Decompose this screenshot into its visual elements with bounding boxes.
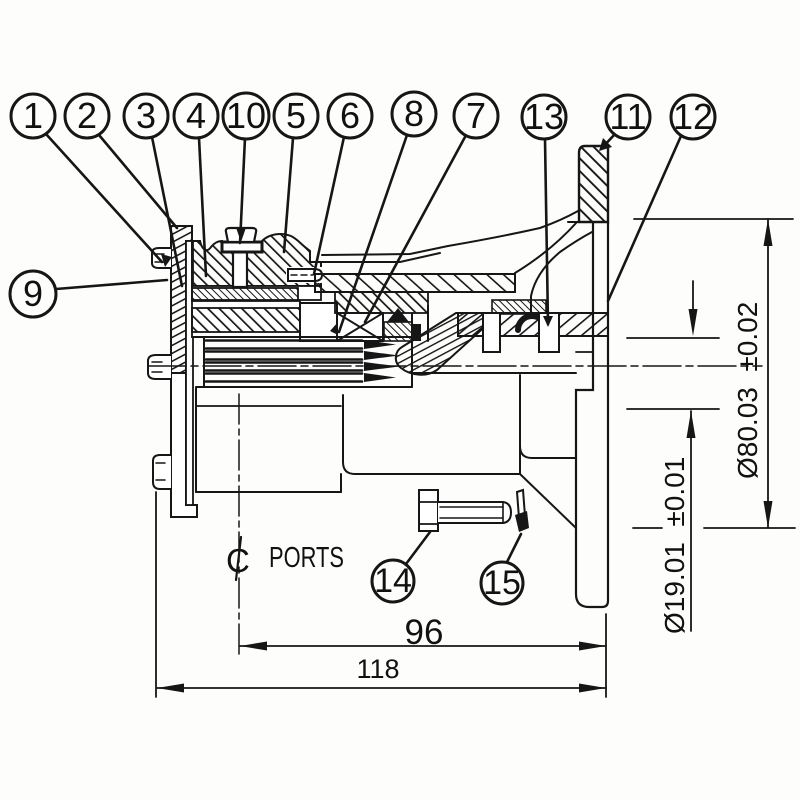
bolt 10 washer (222, 242, 262, 252)
down arrow to line (689, 281, 698, 336)
bearing X box (337, 313, 383, 341)
flange slot tail line (576, 351, 593, 353)
top extension line (634, 218, 793, 220)
svg-text:8: 8 (404, 93, 424, 134)
balloon 2 (65, 94, 109, 138)
shaft centerline (148, 365, 762, 367)
body interior bottom line (412, 372, 576, 374)
leader arrow 8 (330, 322, 338, 335)
svg-text:PORTS: PORTS (269, 542, 344, 574)
balloon 10 (223, 93, 269, 139)
svg-text:12: 12 (673, 96, 713, 137)
leader for balloon 3 (152, 137, 182, 286)
leader for balloon 15 (507, 534, 521, 562)
shaft shoulder line (411, 313, 413, 387)
leader for balloon 6 (314, 137, 344, 274)
dim 96 right arrow (579, 642, 606, 651)
svg-text:3: 3 (136, 95, 156, 136)
impeller arm (396, 313, 500, 375)
dim 96 line (240, 645, 606, 647)
balloon 3 (124, 94, 168, 138)
leader for balloon 2 (99, 135, 177, 228)
svg-text:10: 10 (226, 95, 266, 136)
bottom extension line (633, 527, 795, 529)
spline teeth (206, 340, 399, 382)
leader arrow 1 (161, 254, 172, 267)
right flange plate (576, 222, 608, 607)
right extension line (605, 614, 607, 697)
svg-text:15: 15 (483, 564, 521, 602)
balloon 14 (372, 560, 414, 602)
block ledge (568, 221, 579, 223)
svg-text:11: 11 (609, 96, 646, 137)
body top plate white band upper line (322, 211, 578, 255)
dim 118 line (157, 687, 606, 689)
flange bolt middle (148, 355, 171, 379)
pin part6 (288, 269, 322, 281)
leader arrow 11 (599, 138, 612, 151)
cam white core (522, 324, 542, 338)
flange bolt top (152, 248, 171, 268)
body right edge (519, 375, 521, 474)
upper short extension line (627, 337, 719, 339)
leader for balloon 5 (284, 138, 293, 252)
key 15 (515, 490, 529, 532)
balloon 1 (11, 94, 55, 138)
dim 118 right arrow (579, 684, 606, 693)
dia19 dimension line (690, 411, 692, 631)
svg-text:6: 6 (340, 95, 360, 136)
seal right black (412, 324, 421, 341)
leader for balloon 7 (365, 137, 465, 322)
bolt 14 shank (438, 502, 511, 523)
foot slot 2 (539, 313, 559, 352)
svg-text:96: 96 (405, 613, 444, 652)
leader arrow 13 (543, 316, 553, 327)
centerline symbol (226, 537, 250, 580)
bolt 14 head (419, 490, 438, 531)
leader for balloon 4 (199, 138, 206, 276)
sleeve line (427, 306, 429, 341)
leader for balloon 8 (339, 135, 407, 332)
leader for balloon 10 (240, 138, 245, 243)
foot slot 1 (483, 313, 500, 352)
pin dashes (291, 274, 313, 276)
pulley hub sectioned block (192, 234, 321, 286)
body bottom interior (343, 395, 520, 474)
pin part6 backing (286, 267, 326, 283)
balloon 8 (392, 92, 436, 136)
ports centerline (238, 394, 240, 658)
svg-text:1: 1 (23, 95, 43, 136)
left flange sectioned part (171, 226, 192, 373)
balloon 6 (328, 94, 372, 138)
flange gasket (186, 241, 193, 505)
balloon 12 (671, 95, 715, 139)
hub white gap (192, 286, 321, 300)
balloon 15 (481, 562, 523, 604)
balloon 11 (606, 95, 650, 139)
seal lip black (387, 308, 409, 322)
balloon 4 (174, 94, 218, 138)
dia19 up arrow (687, 411, 696, 438)
hub dense band (192, 288, 298, 301)
lower body left block (196, 388, 341, 492)
svg-text:2: 2 (77, 95, 97, 136)
cam hatch block (492, 300, 546, 314)
balloon 13 (522, 95, 566, 139)
hub lower band (192, 301, 300, 337)
body top plate sectioned band (315, 274, 515, 292)
svg-text:9: 9 (23, 273, 43, 314)
seal element (384, 322, 412, 341)
body top plate white band lower line (321, 253, 440, 262)
leader for balloon 13 (545, 139, 548, 324)
bolt 10 shank (233, 252, 247, 287)
balloon 5 (274, 94, 318, 138)
spacer box (300, 303, 337, 341)
svg-text:13: 13 (524, 96, 564, 137)
leader for balloon 1 (46, 134, 162, 262)
left extension line (155, 492, 157, 697)
svg-text:14: 14 (374, 562, 412, 600)
body bottom diagonal (520, 474, 576, 528)
leader for balloon 14 (406, 532, 430, 564)
svg-text:4: 4 (186, 95, 206, 136)
leader for balloon 12 (608, 136, 681, 301)
balloon 7 (454, 94, 498, 138)
leader for balloon 11 (601, 134, 615, 149)
bolt 10 head (226, 228, 256, 242)
splined shaft outline (192, 337, 412, 387)
dia80 bottom arrow (764, 501, 773, 528)
dim 118 left arrow (157, 684, 184, 693)
svg-text:118: 118 (356, 654, 399, 684)
cam dark arc (518, 316, 546, 330)
svg-text:Ø19.01 ±0.01: Ø19.01 ±0.01 (659, 457, 690, 634)
svg-text:7: 7 (466, 95, 486, 136)
bracket arm to flange (515, 222, 577, 273)
dia80 dimension line (767, 219, 769, 528)
lower short extension line (627, 408, 719, 410)
flange bolt bottom (153, 455, 171, 489)
bolt 10 slot (237, 229, 246, 242)
dim 96 left arrow (240, 642, 267, 651)
svg-text:Ø80.03 ±0.02: Ø80.03 ±0.02 (732, 302, 763, 479)
dia80 top arrow (764, 219, 773, 246)
leader for balloon 9 (56, 280, 167, 289)
part 11 sectioned block (579, 146, 608, 222)
balloon 9 (10, 271, 56, 317)
svg-text:5: 5 (286, 95, 306, 136)
mounting foot band (458, 313, 608, 336)
left flange lower part (171, 373, 197, 517)
seal housing hatch (335, 292, 428, 313)
